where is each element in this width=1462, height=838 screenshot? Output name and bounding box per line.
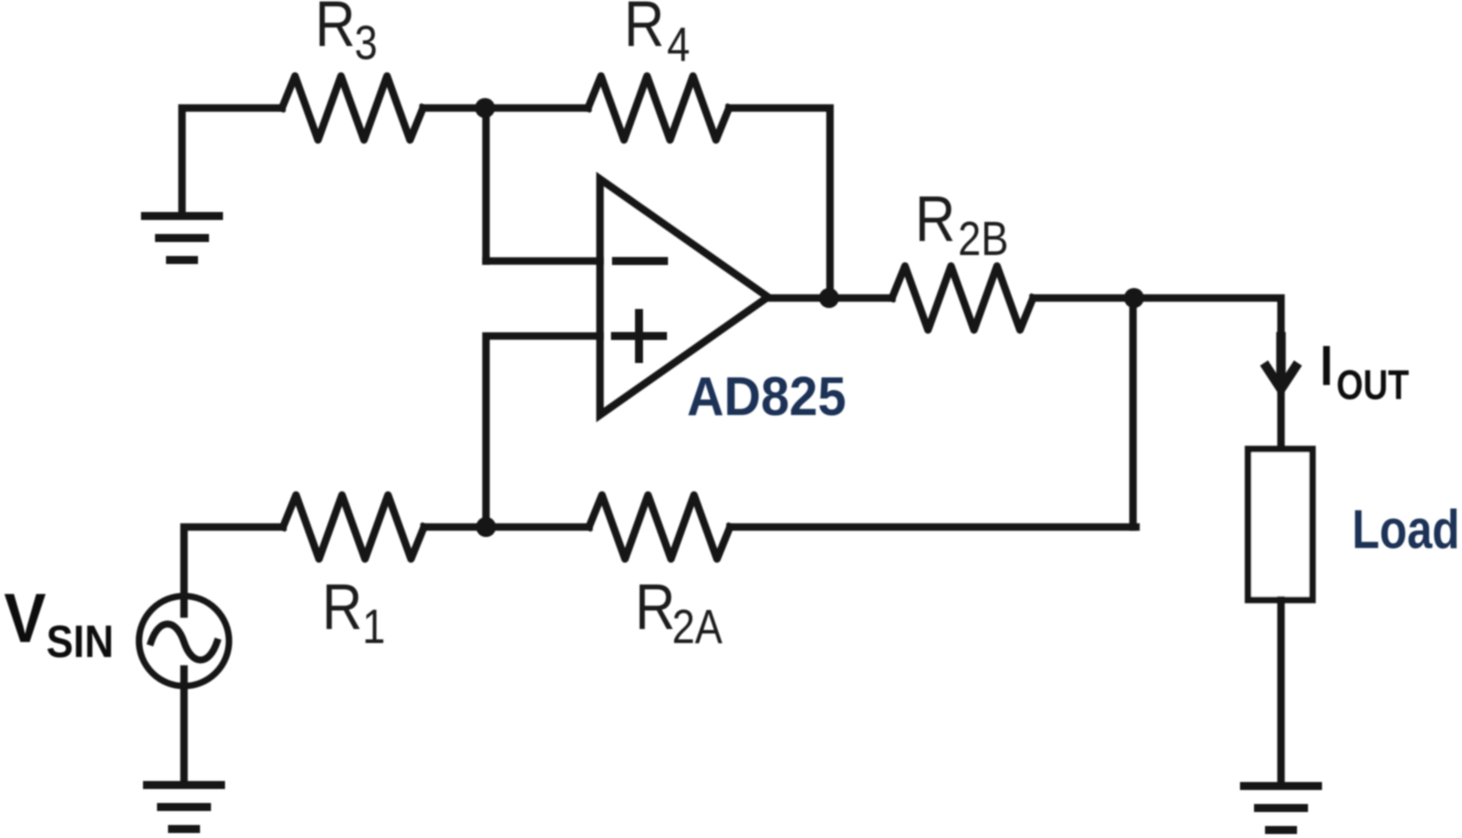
label R3 <box>315 0 378 70</box>
wire: VSIN top corner to R1 <box>184 527 283 614</box>
svg-text:SIN: SIN <box>46 617 113 667</box>
svg-text:R: R <box>915 182 955 255</box>
svg-text:Load: Load <box>1352 498 1460 560</box>
ground GND2 (right, under load) <box>1244 786 1318 830</box>
svg-text:R: R <box>322 570 362 643</box>
label Load <box>1352 498 1460 560</box>
label R2A <box>635 570 723 654</box>
wire: R4 right corner down to op-amp output <box>729 108 830 295</box>
ground GND3 (bottom left) <box>147 785 221 829</box>
label AD825 <box>687 366 846 427</box>
wire: VSIN bottom to ground <box>180 669 188 782</box>
svg-text:1: 1 <box>362 600 385 654</box>
svg-text:I: I <box>1320 335 1333 398</box>
label R2B <box>915 182 1008 266</box>
node B junction dot (output) <box>819 288 839 308</box>
svg-text:R: R <box>624 0 664 60</box>
resistor R2B <box>892 266 1033 330</box>
resistor R3 <box>282 76 423 140</box>
wire: inverting input horizontal <box>486 257 600 265</box>
wire: R3 to R4 through node A <box>423 104 588 112</box>
wire: R1 to R2A through node D <box>424 523 589 531</box>
svg-text:V: V <box>4 580 46 658</box>
svg-text:OUT: OUT <box>1336 362 1409 409</box>
op-amp plus symbol <box>615 313 663 359</box>
wire: R2B to right corner and down to load <box>1033 298 1281 449</box>
wire: top-left corner from ground to R3 <box>182 108 282 213</box>
label R4 <box>624 0 690 72</box>
op-amp minus symbol <box>616 257 664 265</box>
svg-text:3: 3 <box>355 16 378 70</box>
node A junction dot <box>475 98 495 118</box>
svg-text:AD825: AD825 <box>687 366 846 427</box>
svg-text:2B: 2B <box>958 212 1008 266</box>
IOUT arrow head <box>1264 332 1298 389</box>
op-amp U1 triangle <box>600 179 768 415</box>
ground GND1 (top left) <box>145 216 219 260</box>
load rectangle <box>1248 449 1313 600</box>
resistor R4 <box>588 76 729 140</box>
wire: op-amp output to R2B <box>768 294 892 302</box>
svg-text:2A: 2A <box>672 600 723 654</box>
node C junction dot <box>1124 288 1144 308</box>
wire: non-inverting input horizontal and down to node D <box>486 336 600 524</box>
label R1 <box>322 570 385 654</box>
svg-text:R: R <box>315 0 355 60</box>
resistor R2A <box>589 495 730 559</box>
label VSIN <box>4 580 114 668</box>
svg-text:4: 4 <box>667 18 690 72</box>
wire: feedback from node C down <box>1129 298 1137 527</box>
wire: load bottom to ground <box>1277 600 1285 783</box>
resistor R1 <box>283 495 424 559</box>
node D junction dot <box>476 517 496 537</box>
svg-text:R: R <box>635 570 675 643</box>
wire: feedback horizontal to R2A <box>730 523 1136 531</box>
source VSIN circle <box>139 596 229 686</box>
wire: node A down to inverting input <box>482 108 490 261</box>
source VSIN sine wave <box>151 624 217 660</box>
label IOUT <box>1320 335 1410 409</box>
